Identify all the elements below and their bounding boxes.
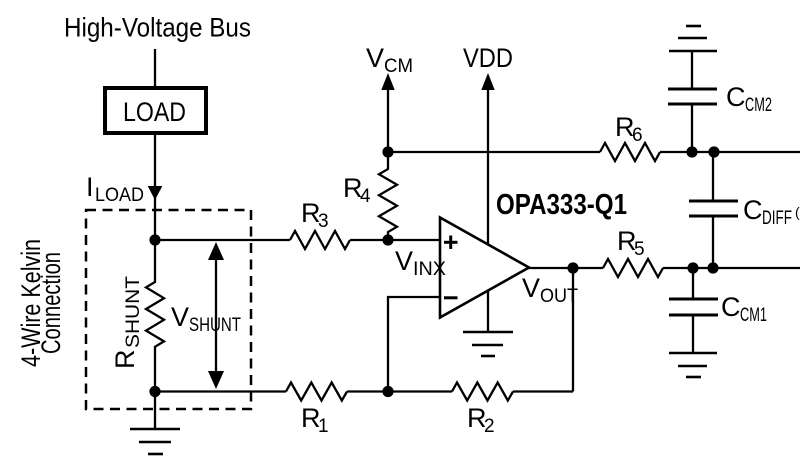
bottom feedback rail left — [155, 390, 286, 392]
op-amp ground — [487, 291, 489, 332]
resistor R2 — [452, 383, 513, 401]
op-amp U1 — [440, 218, 529, 318]
capacitor CCM1 — [692, 268, 694, 299]
ground below CCM1 — [669, 352, 717, 355]
svg-text:INX: INX — [413, 259, 446, 280]
svg-text:6: 6 — [632, 125, 643, 146]
svg-text:LOAD: LOAD — [95, 185, 144, 206]
dashed 4-wire Kelvin box — [86, 210, 251, 409]
svg-text:R: R — [110, 350, 140, 370]
bottom right rail — [663, 267, 800, 269]
node VOUT — [567, 262, 578, 273]
svg-text:C: C — [726, 82, 746, 112]
capacitor CCM2 — [691, 104, 693, 152]
svg-text:V: V — [522, 273, 540, 303]
wire VOUT down to feedback rail — [572, 268, 574, 392]
svg-text:V: V — [366, 43, 384, 73]
output wire — [528, 267, 603, 269]
svg-text:2: 2 — [484, 416, 495, 437]
ground below shunt — [154, 392, 156, 430]
node top of shunt — [149, 234, 160, 245]
wire R1 to node — [347, 390, 452, 392]
resistor R1 — [286, 383, 347, 401]
svg-text:I: I — [86, 172, 94, 202]
LOAD box — [105, 88, 206, 133]
svg-text:VDD: VDD — [463, 43, 513, 73]
svg-text:V: V — [171, 302, 189, 332]
top rail to R6 — [388, 151, 600, 153]
svg-text:3: 3 — [318, 211, 329, 232]
svg-text:CM2: CM2 — [745, 95, 772, 116]
svg-text:CM: CM — [384, 56, 413, 77]
svg-text:LOAD: LOAD — [123, 97, 186, 127]
svg-text:OPA333-Q1: OPA333-Q1 — [496, 189, 627, 221]
svg-text:V: V — [395, 246, 413, 276]
svg-text:C: C — [743, 195, 763, 225]
resistor R5 — [603, 259, 663, 277]
capacitor CDIFF — [712, 152, 714, 201]
svg-text:DIFF: DIFF — [762, 208, 792, 229]
resistor R4 — [379, 152, 397, 240]
node bottom of shunt — [149, 386, 160, 397]
top rail after R6 — [660, 151, 800, 153]
node dots right bottom — [687, 262, 698, 273]
VCM arrow — [387, 88, 389, 152]
svg-text:C: C — [721, 292, 741, 322]
wire R2 to VOUT drop — [513, 390, 573, 392]
node feedback — [382, 386, 393, 397]
svg-text:4: 4 — [360, 186, 371, 207]
wire minus input feedback — [388, 297, 440, 392]
svg-text:CM1: CM1 — [740, 305, 767, 326]
node dots right top — [686, 146, 697, 157]
svg-text:(: ( — [795, 204, 800, 220]
svg-text:5: 5 — [634, 239, 645, 260]
wire shunt top to R3 — [155, 239, 290, 241]
resistor R6 — [600, 143, 660, 161]
node R4 top — [382, 146, 393, 157]
resistor RSHUNT — [146, 240, 164, 392]
svg-text:High-Voltage Bus: High-Voltage Bus — [64, 13, 251, 43]
VDD arrow — [487, 88, 489, 244]
resistor R3 — [290, 231, 350, 249]
svg-text:Connection: Connection — [36, 252, 66, 354]
ground above CCM2 (flipped) — [669, 50, 717, 53]
svg-text:SHUNT: SHUNT — [123, 276, 144, 348]
wire R3 to plus input — [350, 239, 440, 241]
VSHUNT double arrow — [215, 255, 217, 376]
svg-text:1: 1 — [318, 416, 329, 437]
node VINX — [382, 234, 393, 245]
wire bus to LOAD — [154, 49, 156, 86]
svg-text:SHUNT: SHUNT — [189, 315, 241, 336]
wire LOAD to shunt with ILOAD arrowhead — [154, 133, 156, 240]
